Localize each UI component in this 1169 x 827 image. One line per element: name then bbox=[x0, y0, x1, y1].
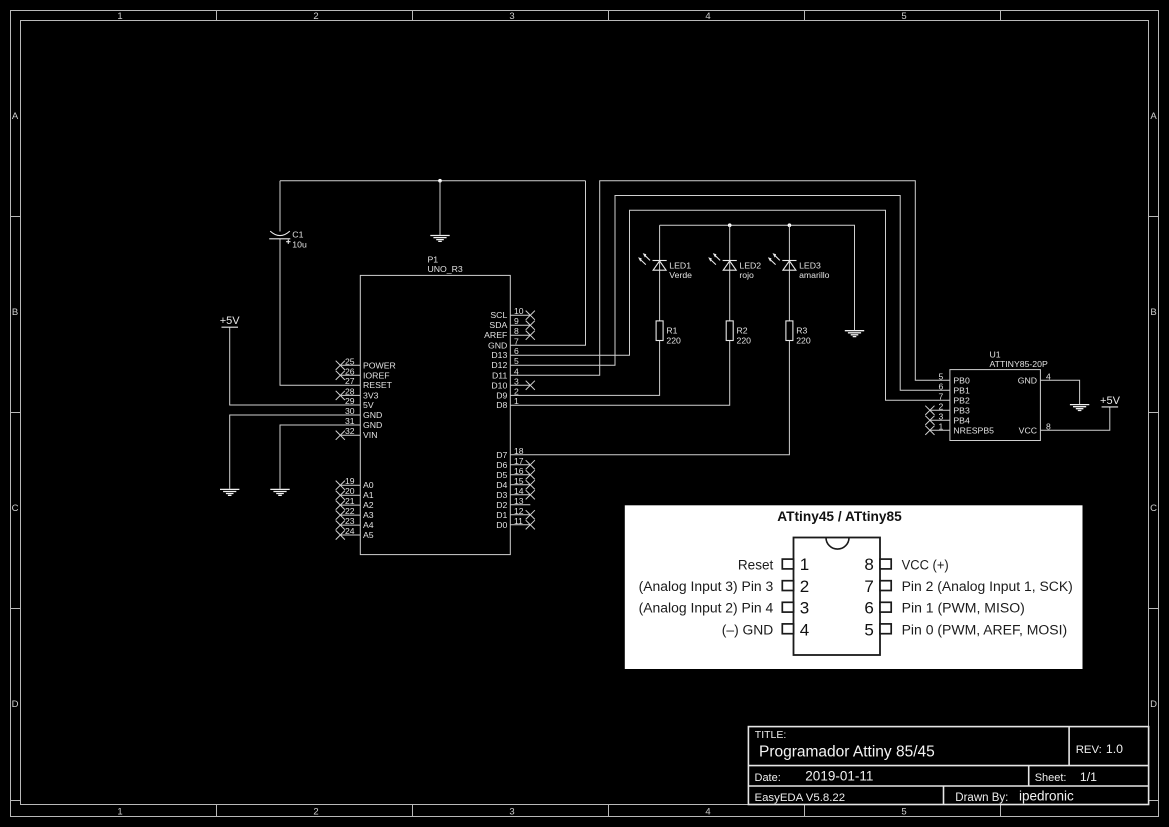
pin 27 RESET bbox=[345, 376, 393, 390]
svg-text:Sheet:: Sheet: bbox=[1035, 772, 1067, 784]
svg-text:7: 7 bbox=[514, 336, 519, 346]
svg-text:1: 1 bbox=[514, 396, 519, 406]
svg-text:220: 220 bbox=[666, 335, 681, 345]
svg-text:23: 23 bbox=[345, 516, 355, 526]
svg-text:2019-01-11: 2019-01-11 bbox=[805, 769, 873, 784]
svg-text:3: 3 bbox=[509, 807, 514, 818]
svg-text:6: 6 bbox=[864, 599, 873, 618]
svg-text:25: 25 bbox=[345, 356, 355, 366]
frame right ticks bbox=[1149, 217, 1159, 801]
inset pin square 8 bbox=[880, 559, 891, 569]
svg-text:A4: A4 bbox=[363, 520, 374, 530]
svg-text:LED1: LED1 bbox=[669, 260, 691, 270]
svg-text:R3: R3 bbox=[796, 325, 807, 335]
svg-text:D9: D9 bbox=[496, 390, 507, 400]
svg-text:U1: U1 bbox=[990, 349, 1001, 359]
svg-text:7: 7 bbox=[864, 577, 873, 596]
svg-text:6: 6 bbox=[514, 346, 519, 356]
pin 3 PB4 no-connect bbox=[925, 411, 970, 425]
pin 17 D6 no-connect bbox=[496, 456, 535, 470]
svg-text:4: 4 bbox=[514, 366, 519, 376]
svg-text:rojo: rojo bbox=[739, 270, 754, 280]
inset pin numbers right bbox=[864, 555, 873, 639]
pin 31 GND bbox=[345, 416, 382, 430]
pin 22 A3 no-connect bbox=[336, 506, 374, 520]
svg-text:GND: GND bbox=[363, 410, 382, 420]
svg-text:ipedronic: ipedronic bbox=[1019, 788, 1074, 803]
title block outline bbox=[748, 727, 1148, 805]
svg-text:SCL: SCL bbox=[490, 310, 507, 320]
svg-text:D12: D12 bbox=[491, 360, 507, 370]
pin 6 PB1 bbox=[939, 381, 970, 395]
svg-text:A5: A5 bbox=[363, 530, 374, 540]
pin 5 D12 bbox=[491, 356, 519, 370]
svg-text:D4: D4 bbox=[496, 480, 507, 490]
svg-text:B: B bbox=[1150, 307, 1156, 318]
resistor R1 bbox=[656, 321, 663, 341]
pin 26 IOREF no-connect bbox=[336, 366, 390, 380]
svg-text:C: C bbox=[1150, 503, 1157, 514]
svg-text:AREF: AREF bbox=[484, 330, 507, 340]
svg-text:220: 220 bbox=[796, 335, 811, 345]
svg-text:D: D bbox=[1150, 699, 1157, 710]
led LED2 bbox=[708, 253, 737, 270]
pin 1 NRESPB5 no-connect bbox=[925, 421, 994, 435]
svg-text:PB1: PB1 bbox=[953, 385, 970, 395]
svg-text:Programador Attiny 85/45: Programador Attiny 85/45 bbox=[759, 744, 935, 761]
ground G1 bbox=[430, 236, 449, 242]
pin 14 D3 no-connect bbox=[496, 486, 535, 500]
TITLEBLOCK bbox=[748, 727, 1148, 805]
svg-text:Date:: Date: bbox=[755, 772, 781, 784]
svg-text:13: 13 bbox=[514, 496, 524, 506]
svg-text:LED3: LED3 bbox=[799, 260, 821, 270]
svg-text:PB3: PB3 bbox=[953, 405, 970, 415]
pin 28 3V3 no-connect bbox=[336, 386, 379, 400]
inset pin square 2 bbox=[782, 581, 793, 591]
pin 13 D2 bbox=[496, 496, 530, 510]
wire rail to C1 top bbox=[279, 181, 281, 232]
pin 5 PB0 bbox=[939, 371, 970, 385]
svg-text:5: 5 bbox=[939, 371, 944, 381]
title block row divider 1 bbox=[748, 765, 1148, 767]
svg-text:2: 2 bbox=[939, 401, 944, 411]
svg-text:24: 24 bbox=[345, 526, 355, 536]
svg-text:19: 19 bbox=[345, 476, 355, 486]
svg-text:2: 2 bbox=[514, 386, 519, 396]
pin 10 SCL no-connect bbox=[490, 306, 535, 320]
svg-text:27: 27 bbox=[345, 376, 355, 386]
svg-text:Verde: Verde bbox=[669, 270, 692, 280]
svg-text:PB0: PB0 bbox=[953, 375, 970, 385]
capacitor C1 bbox=[269, 231, 290, 244]
svg-text:D3: D3 bbox=[496, 490, 507, 500]
ground G5 bbox=[1070, 405, 1089, 411]
svg-text:SDA: SDA bbox=[489, 320, 507, 330]
svg-text:A1: A1 bbox=[363, 490, 374, 500]
svg-text:2: 2 bbox=[313, 807, 318, 818]
svg-text:A3: A3 bbox=[363, 510, 374, 520]
svg-text:D5: D5 bbox=[496, 470, 507, 480]
svg-text:+5V: +5V bbox=[220, 315, 241, 327]
svg-text:EasyEDA V5.8.22: EasyEDA V5.8.22 bbox=[755, 792, 846, 804]
inset pin square 7 bbox=[880, 581, 891, 591]
svg-text:B: B bbox=[12, 307, 18, 318]
svg-text:RESET: RESET bbox=[363, 380, 393, 390]
pin 20 A1 no-connect bbox=[336, 486, 374, 500]
inset pin square 1 bbox=[782, 559, 793, 569]
svg-text:D13: D13 bbox=[491, 350, 507, 360]
wire net D11 to PB0 bbox=[510, 181, 950, 381]
pin 25 POWER no-connect bbox=[336, 356, 396, 370]
pin 7 GND bbox=[488, 336, 519, 350]
title block divider sheet bbox=[1028, 766, 1030, 786]
wire net D8 to R2 bbox=[510, 341, 729, 406]
frame bottom ticks bbox=[217, 805, 1001, 817]
wire net D13 to PB2 bbox=[510, 210, 950, 400]
svg-text:TITLE:: TITLE: bbox=[755, 729, 787, 741]
svg-text:4: 4 bbox=[800, 620, 809, 639]
svg-text:2: 2 bbox=[800, 577, 809, 596]
svg-text:5: 5 bbox=[901, 807, 906, 818]
svg-text:5V: 5V bbox=[363, 400, 374, 410]
svg-text:NRESPB5: NRESPB5 bbox=[953, 425, 994, 435]
pin 7 PB2 bbox=[939, 391, 970, 405]
wire led2 branch bbox=[729, 225, 731, 321]
pin 32 VIN no-connect bbox=[336, 426, 378, 440]
led LED3 bbox=[768, 253, 797, 270]
svg-text:8: 8 bbox=[864, 555, 873, 574]
frame left ticks bbox=[11, 217, 21, 801]
svg-text:3V3: 3V3 bbox=[363, 390, 379, 400]
svg-text:A: A bbox=[1150, 111, 1157, 122]
frame row labels right bbox=[1150, 111, 1157, 710]
svg-text:8: 8 bbox=[514, 326, 519, 336]
svg-text:(Analog Input 3) Pin 3: (Analog Input 3) Pin 3 bbox=[639, 579, 774, 595]
pin 30 GND bbox=[345, 406, 382, 420]
svg-text:21: 21 bbox=[345, 496, 355, 506]
svg-text:Reset: Reset bbox=[738, 557, 773, 573]
svg-text:VIN: VIN bbox=[363, 430, 377, 440]
svg-text:POWER: POWER bbox=[363, 360, 396, 370]
inset pin square 4 bbox=[782, 624, 793, 634]
inset IC notch bbox=[826, 538, 849, 550]
svg-text:Pin 0 (PWM, AREF, MOSI): Pin 0 (PWM, AREF, MOSI) bbox=[902, 623, 1068, 639]
inset pin square 6 bbox=[880, 602, 891, 612]
svg-text:10u: 10u bbox=[292, 240, 307, 250]
title block divider rev bbox=[1068, 727, 1070, 766]
svg-text:D6: D6 bbox=[496, 460, 507, 470]
UNO bbox=[336, 255, 535, 555]
U1 bbox=[925, 349, 1051, 440]
svg-text:VCC: VCC bbox=[1019, 425, 1037, 435]
svg-text:D2: D2 bbox=[496, 500, 507, 510]
svg-text:3: 3 bbox=[800, 599, 809, 618]
svg-text:D10: D10 bbox=[491, 380, 507, 390]
pin 23 A4 no-connect bbox=[336, 516, 374, 530]
pin 2 PB3 no-connect bbox=[925, 401, 970, 415]
svg-text:11: 11 bbox=[514, 516, 523, 526]
title block divider drawnby bbox=[943, 786, 945, 805]
svg-text:4: 4 bbox=[1046, 371, 1051, 381]
svg-text:3: 3 bbox=[514, 376, 519, 386]
wire +5V to pin29 bbox=[230, 327, 361, 405]
inset pin numbers left bbox=[800, 555, 809, 639]
wire net D9 to R1 bbox=[510, 341, 659, 396]
frame row labels left bbox=[12, 111, 19, 710]
wire pin30 to ground bbox=[230, 415, 361, 489]
wire net D7 to R3 bbox=[510, 341, 789, 455]
svg-text:31: 31 bbox=[345, 416, 355, 426]
svg-text:D7: D7 bbox=[496, 450, 507, 460]
svg-text:3: 3 bbox=[939, 411, 944, 421]
resistor R2 bbox=[726, 321, 733, 341]
svg-text:Pin 2 (Analog Input 1, SCK): Pin 2 (Analog Input 1, SCK) bbox=[902, 579, 1073, 595]
svg-text:LED2: LED2 bbox=[739, 260, 761, 270]
svg-text:PB4: PB4 bbox=[953, 415, 970, 425]
svg-text:REV:: REV: bbox=[1076, 744, 1102, 756]
inset pin square 5 bbox=[880, 624, 891, 634]
pin 4 GND bbox=[1018, 371, 1051, 385]
pin 15 D4 no-connect bbox=[496, 476, 535, 490]
wire C1 bottom to RESET bbox=[280, 239, 360, 385]
svg-text:26: 26 bbox=[345, 366, 355, 376]
wire U1 vcc pin8 to +5V bbox=[1040, 407, 1109, 430]
wire gnd top rail bbox=[280, 180, 586, 182]
connector P1 UNO_R3 body bbox=[360, 275, 510, 554]
svg-text:15: 15 bbox=[514, 476, 524, 486]
wire led3 branch bbox=[788, 225, 790, 321]
pin 1 D8 bbox=[496, 396, 519, 410]
pin 11 D0 no-connect bbox=[496, 516, 535, 530]
svg-text:GND: GND bbox=[1018, 375, 1037, 385]
frame column labels bottom bbox=[117, 807, 906, 818]
wire led cathode rail bbox=[660, 225, 855, 330]
svg-text:(Analog Input 2) Pin 4: (Analog Input 2) Pin 4 bbox=[639, 601, 774, 617]
svg-text:1: 1 bbox=[117, 807, 122, 818]
svg-text:Drawn By:: Drawn By: bbox=[955, 792, 1008, 804]
svg-text:C: C bbox=[12, 503, 19, 514]
svg-text:220: 220 bbox=[737, 335, 752, 345]
svg-text:UNO_R3: UNO_R3 bbox=[428, 264, 463, 274]
inset pin square 3 bbox=[782, 602, 793, 612]
pin 16 D5 no-connect bbox=[496, 466, 535, 480]
pin 21 A2 no-connect bbox=[336, 496, 374, 510]
svg-text:12: 12 bbox=[514, 506, 524, 516]
svg-text:D: D bbox=[12, 699, 19, 710]
node junction gnd rail bbox=[438, 179, 442, 183]
svg-text:ATTINY85-20P: ATTINY85-20P bbox=[990, 359, 1048, 369]
led LED1 bbox=[638, 253, 667, 270]
svg-text:D11: D11 bbox=[492, 370, 507, 380]
pin 24 A5 no-connect bbox=[336, 526, 374, 540]
svg-text:ATtiny45 / ATtiny85: ATtiny45 / ATtiny85 bbox=[777, 509, 902, 524]
wire led1 branch bbox=[659, 225, 661, 321]
svg-text:D8: D8 bbox=[496, 400, 507, 410]
svg-text:1: 1 bbox=[939, 421, 944, 431]
wire junction to ground bbox=[439, 181, 441, 235]
svg-text:Pin 1 (PWM, MISO): Pin 1 (PWM, MISO) bbox=[902, 601, 1025, 617]
svg-text:5: 5 bbox=[901, 11, 906, 22]
svg-text:4: 4 bbox=[705, 11, 710, 22]
svg-text:1: 1 bbox=[117, 11, 122, 22]
ground G2 led rail bbox=[845, 331, 864, 337]
resistor R3 bbox=[786, 321, 793, 341]
svg-text:1: 1 bbox=[800, 555, 809, 574]
svg-text:D1: D1 bbox=[496, 510, 507, 520]
svg-text:IOREF: IOREF bbox=[363, 370, 390, 380]
svg-text:22: 22 bbox=[345, 506, 355, 516]
frame top ticks bbox=[217, 11, 1001, 21]
node junction led3 rail bbox=[788, 223, 792, 227]
svg-text:20: 20 bbox=[345, 486, 355, 496]
svg-text:18: 18 bbox=[514, 446, 524, 456]
inset white panel bbox=[625, 505, 1083, 669]
node junction led2 rail bbox=[728, 223, 732, 227]
pin 19 A0 no-connect bbox=[336, 476, 374, 490]
svg-text:A0: A0 bbox=[363, 480, 374, 490]
pin 9 SDA no-connect bbox=[489, 316, 534, 330]
pin 2 D9 bbox=[496, 386, 519, 400]
svg-text:1.0: 1.0 bbox=[1106, 742, 1123, 756]
svg-text:GND: GND bbox=[363, 420, 382, 430]
wire U1 gnd pin4 to ground bbox=[1040, 380, 1079, 404]
svg-text:10: 10 bbox=[514, 306, 524, 316]
frame column labels top bbox=[117, 11, 906, 22]
pin 6 D13 bbox=[491, 346, 519, 360]
svg-text:30: 30 bbox=[345, 406, 355, 416]
svg-text:amarillo: amarillo bbox=[799, 270, 830, 280]
svg-text:PB2: PB2 bbox=[953, 395, 970, 405]
svg-text:C1: C1 bbox=[292, 229, 303, 239]
svg-text:6: 6 bbox=[939, 381, 944, 391]
svg-text:8: 8 bbox=[1046, 421, 1051, 431]
svg-text:A: A bbox=[12, 111, 19, 122]
svg-text:2: 2 bbox=[313, 11, 318, 22]
power +5V left bbox=[220, 315, 241, 327]
svg-text:28: 28 bbox=[345, 386, 355, 396]
LEDS bbox=[638, 253, 830, 345]
wire pin7 gnd to rail bbox=[510, 181, 585, 346]
INSET bbox=[625, 505, 1083, 669]
svg-text:5: 5 bbox=[864, 620, 873, 639]
svg-text:17: 17 bbox=[514, 456, 524, 466]
pin 8 VCC bbox=[1019, 421, 1051, 435]
svg-text:R2: R2 bbox=[737, 325, 748, 335]
ground G3 bbox=[220, 489, 239, 495]
pin 4 D11 bbox=[492, 366, 519, 380]
svg-text:A2: A2 bbox=[363, 500, 374, 510]
svg-text:16: 16 bbox=[514, 466, 524, 476]
svg-text:32: 32 bbox=[345, 426, 355, 436]
power +5V right bbox=[1100, 395, 1121, 407]
svg-text:GND: GND bbox=[488, 340, 507, 350]
svg-text:4: 4 bbox=[705, 807, 710, 818]
svg-text:29: 29 bbox=[345, 396, 355, 406]
svg-text:3: 3 bbox=[509, 11, 514, 22]
ground G4 bbox=[270, 489, 289, 495]
svg-text:7: 7 bbox=[939, 391, 944, 401]
ic U1 ATTINY85-20P body bbox=[950, 370, 1041, 441]
svg-text:5: 5 bbox=[514, 356, 519, 366]
pin 12 D1 no-connect bbox=[496, 506, 535, 520]
title block row divider 2 bbox=[748, 785, 1148, 787]
svg-text:1/1: 1/1 bbox=[1080, 770, 1097, 784]
svg-text:9: 9 bbox=[514, 316, 519, 326]
inset IC body bbox=[794, 538, 881, 656]
pin 8 AREF no-connect bbox=[484, 326, 535, 340]
svg-text:(–) GND: (–) GND bbox=[722, 623, 774, 639]
svg-text:+5V: +5V bbox=[1100, 395, 1121, 407]
svg-text:14: 14 bbox=[514, 486, 524, 496]
svg-text:R1: R1 bbox=[666, 325, 677, 335]
pin 29 5V bbox=[345, 396, 374, 410]
svg-text:VCC (+): VCC (+) bbox=[902, 557, 949, 573]
pin 3 D10 no-connect bbox=[491, 376, 535, 390]
wire pin31 to ground bbox=[280, 425, 360, 489]
svg-text:D0: D0 bbox=[496, 520, 507, 530]
wire net D12 to PB1 bbox=[510, 196, 950, 391]
pin 18 D7 bbox=[496, 446, 524, 460]
